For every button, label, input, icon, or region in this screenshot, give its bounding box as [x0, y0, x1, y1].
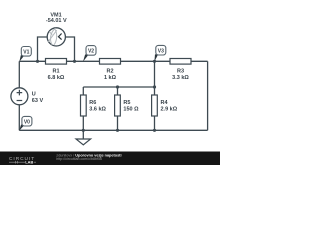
wire bottom rail	[19, 129, 207, 131]
svg-text:U: U	[32, 92, 36, 98]
footer bar	[0, 152, 220, 166]
wire V3 vertical drop	[154, 61, 156, 95]
svg-text:R2: R2	[106, 69, 113, 75]
svg-text:6.8 kΩ: 6.8 kΩ	[48, 75, 65, 81]
wire R4 bottom stub	[154, 116, 156, 130]
svg-text:150 Ω: 150 Ω	[123, 106, 139, 112]
junction mid wire R5	[116, 85, 119, 88]
wire voltmeter left lead	[38, 37, 48, 61]
resistor R3	[170, 59, 191, 82]
svg-text:1 kΩ: 1 kΩ	[104, 75, 117, 81]
resistor R6	[81, 95, 107, 116]
svg-text:R6: R6	[89, 100, 96, 106]
svg-text:-54.01 V: -54.01 V	[46, 18, 67, 24]
wire top rail segment R1-R2	[67, 60, 100, 62]
voltmeter VM1	[46, 13, 67, 46]
resistor R5	[115, 95, 140, 116]
node V2 flag	[83, 46, 96, 62]
ground	[76, 139, 91, 145]
wire R5 bottom stub	[117, 116, 119, 130]
svg-text:2.9 kΩ: 2.9 kΩ	[161, 107, 178, 113]
wire voltmeter right lead	[65, 37, 74, 61]
svg-text:R1: R1	[52, 69, 59, 75]
junction mid wire R4	[153, 85, 156, 88]
svg-text:V3: V3	[158, 48, 164, 54]
svg-text:http://circuitlab.com/c/b8bf56: http://circuitlab.com/c/b8bf56	[56, 157, 102, 161]
junction node V3 on top rail	[153, 60, 156, 63]
junction bottom rail R5	[116, 129, 119, 132]
junction top rail voltmeter left	[36, 60, 39, 63]
svg-text:63 V: 63 V	[32, 98, 44, 104]
voltage source U	[11, 88, 44, 105]
wire left rail upper	[18, 61, 20, 88]
wire left rail lower	[18, 105, 20, 131]
svg-text:V0: V0	[24, 119, 30, 125]
junction bottom rail R4	[153, 129, 156, 132]
svg-text:R5: R5	[123, 100, 130, 106]
node V1 flag	[19, 47, 31, 62]
junction top rail voltmeter right	[73, 60, 76, 63]
resistor R2	[100, 59, 121, 82]
svg-text:LAB: LAB	[25, 160, 33, 165]
resistor R4	[152, 95, 178, 116]
wire top rail segment R3-right corner	[191, 60, 208, 62]
svg-text:V1: V1	[23, 49, 29, 55]
wire R6 bottom stub	[82, 116, 84, 130]
wire top rail segment R2-R3	[121, 60, 171, 62]
svg-text:3.6 kΩ: 3.6 kΩ	[89, 106, 106, 112]
svg-text:R3: R3	[177, 69, 184, 75]
wire top rail segment V1-R1	[19, 60, 45, 62]
resistor R1	[46, 59, 67, 82]
svg-text:R4: R4	[161, 100, 169, 106]
node V3 flag	[154, 45, 165, 61]
junction bottom rail ground	[82, 129, 85, 132]
svg-text:3.3 kΩ: 3.3 kΩ	[172, 75, 189, 81]
wire right rail	[207, 61, 209, 130]
wire R6 top stub	[82, 87, 84, 95]
wire ground stub	[82, 130, 84, 139]
wire mid horizontal	[83, 86, 154, 88]
svg-text:V2: V2	[88, 49, 94, 55]
node V0 flag	[19, 116, 32, 130]
wire R5 top stub	[117, 87, 119, 95]
